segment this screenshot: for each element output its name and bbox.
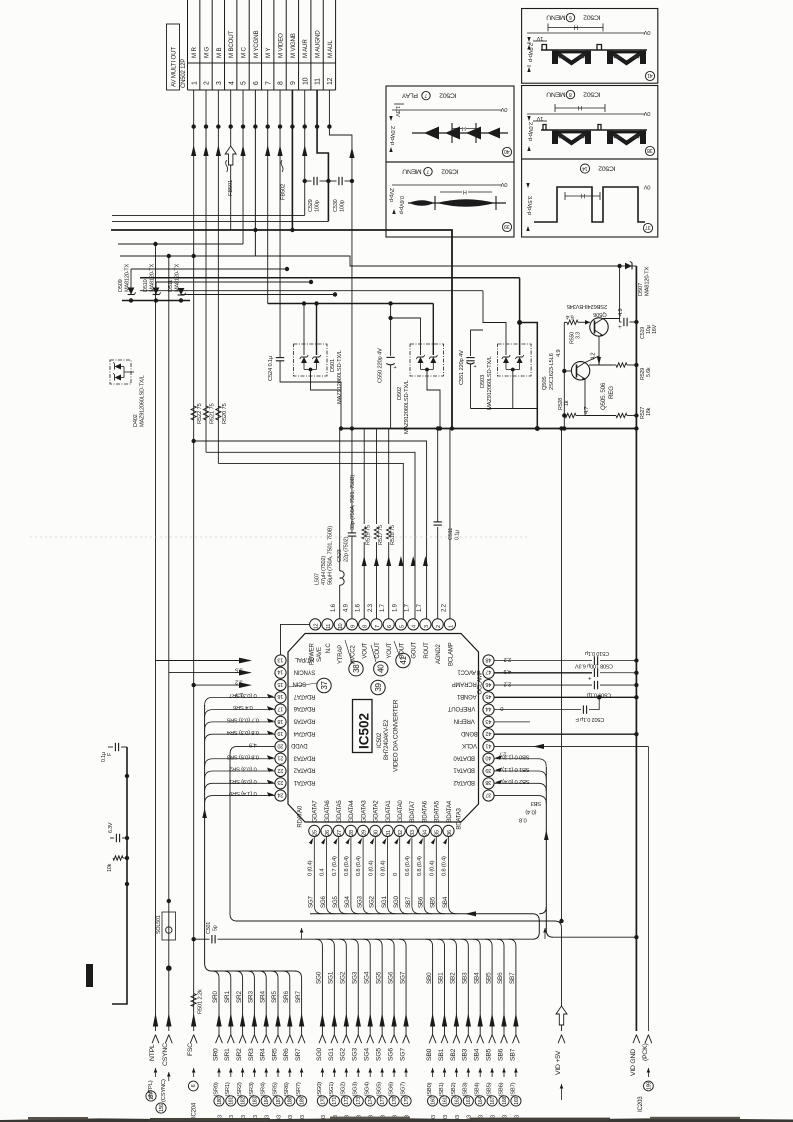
wire col3 M B xyxy=(217,90,219,463)
svg-text:C529: C529 xyxy=(308,199,314,212)
terminal SG6 xyxy=(391,1013,396,1027)
wire Q505 emitter down to R528 node xyxy=(584,379,586,416)
svg-text:GDATA7: GDATA7 xyxy=(313,800,319,823)
svg-text:(CSYNC): (CSYNC) xyxy=(161,1079,167,1102)
wire pin33 SB7 hook to bus C xyxy=(412,837,420,914)
svg-text:2Vp-p: 2Vp-p xyxy=(388,188,394,202)
terminal SG5 xyxy=(379,1013,384,1027)
wire Q506 base line with R550 xyxy=(564,321,567,323)
svg-text:M VIDEO: M VIDEO xyxy=(277,33,284,58)
svg-text:37: 37 xyxy=(320,681,329,690)
svg-text:YTRAP: YTRAP xyxy=(338,645,344,664)
circled ref 41 xyxy=(396,653,410,667)
svg-text:18: 18 xyxy=(278,718,284,724)
svg-text:33p (750A, 7501, 750B): 33p (750A, 7501, 750B) xyxy=(350,475,356,530)
wire pin47 AVCC1 + capacitor C508 100u 6.3V xyxy=(494,672,592,674)
svg-text:10k: 10k xyxy=(107,863,113,872)
SG group wires xyxy=(315,939,322,1034)
svg-text:0.7 (0.3) SR5: 0.7 (0.3) SR5 xyxy=(227,717,259,723)
pin 46 circle xyxy=(483,679,494,690)
pin 45 circle xyxy=(483,692,494,703)
svg-text:37: 37 xyxy=(645,224,651,230)
svg-text:MENU: MENU xyxy=(546,91,566,98)
svg-text:FB502: FB502 xyxy=(281,184,287,200)
svg-text:SR6: SR6 xyxy=(283,991,290,1003)
svg-text:SB3: SB3 xyxy=(462,1048,469,1061)
svg-text:4.9: 4.9 xyxy=(343,603,349,612)
svg-text:15: 15 xyxy=(278,681,284,687)
svg-text:0: 0 xyxy=(500,705,503,711)
pin 35 circle xyxy=(431,825,442,836)
pin 37 circle xyxy=(483,790,494,801)
wire col12 xyxy=(327,124,331,128)
pin 25 circle xyxy=(309,825,320,836)
svg-text:M B: M B xyxy=(216,48,223,58)
resistor R528 1k xyxy=(563,415,566,417)
svg-text:RDATA4: RDATA4 xyxy=(293,730,315,736)
svg-text:BH7240AKV-E2: BH7240AKV-E2 xyxy=(384,719,390,760)
svg-text:183: 183 xyxy=(252,1097,258,1105)
svg-text:(SR7): (SR7) xyxy=(296,1082,302,1096)
waveform box IC502 (7) PLAY xyxy=(386,86,514,162)
svg-text:18k: 18k xyxy=(646,407,652,416)
diode D511 MA8120-TX xyxy=(181,294,335,296)
svg-text:M G: M G xyxy=(203,47,210,58)
terminal SG1 xyxy=(332,1013,337,1027)
svg-text:SG0: SG0 xyxy=(316,1048,323,1061)
svg-text:BCLAMP: BCLAMP xyxy=(448,642,454,666)
svg-text:ROUT: ROUT xyxy=(424,642,430,659)
protection diode D402 MAZ912060LSD-TX/L xyxy=(110,360,131,384)
svg-text:(PCK): (PCK) xyxy=(642,1043,649,1061)
svg-text:AVCC1: AVCC1 xyxy=(457,668,476,674)
svg-text:SB4: SB4 xyxy=(442,896,449,908)
terminal SB6 xyxy=(501,1013,506,1027)
svg-text:SG6: SG6 xyxy=(387,971,394,984)
diode row line xyxy=(122,300,190,302)
stair wire to BOUT pin5 xyxy=(218,463,403,619)
wire pin32 SG0 hook to bus C xyxy=(400,837,408,914)
svg-text:VID +5V: VID +5V xyxy=(555,1050,562,1075)
svg-text:BDATA0: BDATA0 xyxy=(453,754,475,760)
wire pin35 SB5 hook to bus C xyxy=(436,837,444,914)
wire pin38 hook to SB bus xyxy=(494,783,546,791)
svg-text:C523: C523 xyxy=(337,549,343,562)
wire pin17 SR6 hook to SR bus xyxy=(205,710,275,718)
svg-text:L507: L507 xyxy=(315,573,321,585)
pin 17 circle xyxy=(275,704,286,715)
svg-text:1.3V: 1.3V xyxy=(394,106,400,117)
svg-text:199: 199 xyxy=(646,1082,652,1090)
svg-text:3.5Vp-p: 3.5Vp-p xyxy=(526,196,532,215)
svg-text:0.6Vp-p: 0.6Vp-p xyxy=(398,196,404,214)
svg-text:(SB0): (SB0) xyxy=(427,1082,433,1096)
svg-text:R519 75: R519 75 xyxy=(366,525,372,545)
svg-text:SG6: SG6 xyxy=(320,895,327,908)
svg-text:MENU: MENU xyxy=(546,14,566,21)
svg-text:YOUT: YOUT xyxy=(387,642,393,658)
op-amp IC502 BH7240AKV-E2 body xyxy=(288,634,479,823)
resistor R520 75 xyxy=(216,406,221,420)
pin 48 circle xyxy=(483,655,494,666)
svg-text:100p: 100p xyxy=(340,200,346,212)
wire col1 xyxy=(191,124,195,128)
svg-text:C551 220p 4V: C551 220p 4V xyxy=(459,350,465,385)
svg-text:2.0Vp-p: 2.0Vp-p xyxy=(389,126,395,145)
svg-text:11: 11 xyxy=(315,78,322,85)
SR group wires xyxy=(218,978,220,1035)
svg-text:SR0: SR0 xyxy=(212,991,219,1003)
wire pin28 SG4 hook to bus C xyxy=(351,837,359,914)
svg-text:SG1: SG1 xyxy=(328,1048,335,1061)
svg-text:C510 0.1μ: C510 0.1μ xyxy=(585,650,609,656)
svg-text:MAZ912060LSD-TX/L: MAZ912060LSD-TX/L xyxy=(140,375,146,427)
svg-text:SB6: SB6 xyxy=(417,896,424,908)
wire col5 xyxy=(241,124,245,128)
circled ref 37 xyxy=(317,678,331,692)
svg-text:12: 12 xyxy=(327,77,334,85)
svg-text:2.2: 2.2 xyxy=(441,603,447,612)
terminal SB2 xyxy=(454,1013,459,1027)
capacitor C550 220p 4V xyxy=(388,301,392,305)
wire pin18 SR5 hook to SR bus xyxy=(205,722,275,730)
pin 43 circle xyxy=(483,716,494,727)
svg-text:(SB4): (SB4) xyxy=(475,1082,481,1096)
pin 11 circle xyxy=(322,619,333,630)
pin 10 circle xyxy=(334,619,345,630)
svg-text:SR7: SR7 xyxy=(295,991,302,1003)
svg-text:5: 5 xyxy=(399,625,405,628)
waveform box IC502 (7) MENU xyxy=(386,162,514,237)
svg-text:AGND2: AGND2 xyxy=(436,643,442,664)
waveform trace (7) MENU lens shapes xyxy=(408,202,506,204)
svg-text:4.9: 4.9 xyxy=(504,668,511,674)
wire Q506 emitter to C519 xyxy=(603,318,620,320)
svg-text:NTPL: NTPL xyxy=(149,1044,156,1061)
pin 34 circle xyxy=(419,825,430,836)
svg-text:170: 170 xyxy=(320,1097,326,1105)
wire col12 M AUL jog / long vertical xyxy=(329,90,352,429)
svg-text:187: 187 xyxy=(276,1097,282,1105)
svg-text:5.6k: 5.6k xyxy=(646,367,652,377)
svg-text:160: 160 xyxy=(430,1097,436,1105)
svg-text:169: 169 xyxy=(514,1097,520,1105)
svg-text:4: 4 xyxy=(412,625,418,628)
svg-text:SB3: SB3 xyxy=(531,800,541,806)
svg-text:RDATA5: RDATA5 xyxy=(293,718,315,724)
svg-text:IC502: IC502 xyxy=(357,713,372,749)
svg-text:181: 181 xyxy=(229,1097,235,1105)
pin 8 circle xyxy=(359,619,370,630)
svg-text:0.8 (0.4): 0.8 (0.4) xyxy=(344,856,350,876)
svg-text:23: 23 xyxy=(278,779,284,785)
svg-text:38: 38 xyxy=(647,147,653,153)
svg-text:RDATA3: RDATA3 xyxy=(293,754,315,760)
svg-text:43: 43 xyxy=(486,718,492,724)
svg-text:(SG5): (SG5) xyxy=(377,1082,383,1097)
svg-text:(0.4): (0.4) xyxy=(525,809,536,815)
resistor R522 75 xyxy=(191,406,196,420)
wire col4 M BCOUT xyxy=(230,90,232,146)
svg-text:(SB7): (SB7) xyxy=(510,1082,516,1096)
svg-text:VOUT: VOUT xyxy=(363,642,369,658)
terminal SR5 xyxy=(275,1013,280,1027)
capacitor C523 on pin9 AVCC2 wire xyxy=(351,536,353,619)
svg-text:0 (0.3) SR7: 0 (0.3) SR7 xyxy=(229,692,256,698)
svg-text:BDATA4: BDATA4 xyxy=(447,800,453,822)
terminal SR7 xyxy=(299,1013,304,1027)
svg-text:178: 178 xyxy=(392,1097,398,1105)
svg-text:SG3: SG3 xyxy=(352,1048,359,1061)
bus line D y=244 xyxy=(118,243,243,245)
svg-text:2.0Vp-p: 2.0Vp-p xyxy=(527,43,533,62)
svg-text:44: 44 xyxy=(486,706,492,712)
svg-text:39: 39 xyxy=(486,767,492,773)
svg-text:(SR0): (SR0) xyxy=(213,1082,219,1096)
pin 7 circle xyxy=(371,619,382,630)
pin 39 circle xyxy=(483,765,494,776)
pin 14 circle xyxy=(275,667,286,678)
svg-text:184: 184 xyxy=(264,1097,270,1105)
svg-text:171: 171 xyxy=(332,1097,338,1105)
svg-text:VREFOUT: VREFOUT xyxy=(448,705,476,711)
svg-text:SR0: SR0 xyxy=(212,1048,219,1061)
wire col7 M Y xyxy=(267,90,269,304)
svg-text:VCLK: VCLK xyxy=(462,742,477,748)
svg-text:100p: 100p xyxy=(315,200,321,212)
svg-text:GDATA6: GDATA6 xyxy=(325,800,331,823)
svg-text:SR2: SR2 xyxy=(236,991,243,1003)
svg-text:SG7: SG7 xyxy=(308,895,315,908)
capacitor C501 5p xyxy=(211,935,213,943)
resistor R527 18k xyxy=(585,415,616,417)
svg-text:3.3: 3.3 xyxy=(576,332,582,339)
svg-text:1V: 1V xyxy=(536,35,543,41)
svg-text:SB1: SB1 xyxy=(438,972,445,984)
wire col1 M R / FSC vertical xyxy=(193,90,195,1031)
pin 28 circle xyxy=(345,825,356,836)
wire SCIN branch from col1 xyxy=(191,683,195,687)
svg-text:SR2: SR2 xyxy=(236,1048,243,1061)
terminal SG4 xyxy=(368,1013,373,1027)
svg-text:0 (1.4) SR0: 0 (1.4) SR0 xyxy=(229,790,256,796)
svg-text:(SG4): (SG4) xyxy=(365,1082,371,1097)
svg-text:22p (7502): 22p (7502) xyxy=(344,537,350,562)
wire pin43 VREFIN xyxy=(494,721,530,723)
svg-text:6.4: 6.4 xyxy=(565,314,573,320)
svg-text:0.8 (0.5) SR3: 0.8 (0.5) SR3 xyxy=(227,753,259,759)
pin 24 circle xyxy=(275,790,286,801)
svg-text:38: 38 xyxy=(486,779,492,785)
svg-text:D501: D501 xyxy=(330,359,336,372)
svg-text:4: 4 xyxy=(228,81,235,85)
svg-text:R518 75: R518 75 xyxy=(390,525,396,545)
svg-text:CSYNC: CSYNC xyxy=(162,1043,169,1066)
waveform trace (7) PLAY triangles xyxy=(412,132,508,134)
svg-text:(SG3): (SG3) xyxy=(353,1082,359,1097)
svg-text:RDATA6: RDATA6 xyxy=(293,705,315,711)
terminal SB0 xyxy=(430,1013,435,1027)
svg-text:0V: 0V xyxy=(500,181,507,187)
pin 41 circle xyxy=(483,741,494,752)
SB group wires xyxy=(426,939,433,1034)
svg-text:M YCGNB: M YCGNB xyxy=(253,31,260,58)
svg-text:1V: 1V xyxy=(536,115,543,121)
wire regulator output down xyxy=(561,429,563,922)
wire col8 xyxy=(278,124,282,128)
pin 40 circle xyxy=(483,753,494,764)
svg-text:13: 13 xyxy=(278,656,284,662)
supply line y=428.5 thick xyxy=(341,428,636,430)
svg-text:SB2: SB2 xyxy=(450,1048,457,1061)
svg-text:FSC: FSC xyxy=(187,1043,194,1056)
svg-text:SB4: SB4 xyxy=(473,972,480,984)
pin 27 circle xyxy=(333,825,344,836)
pin 6 circle xyxy=(383,619,394,630)
svg-text:(SR4): (SR4) xyxy=(261,1082,267,1096)
transistor Q506 2SB624II-BV345 xyxy=(590,318,608,336)
wire pin36 SB4 hook to bus C xyxy=(449,837,457,914)
svg-text:167: 167 xyxy=(490,1097,496,1105)
capacitor C511 on pin2 AGND2 wire xyxy=(437,527,439,619)
svg-text:SB7: SB7 xyxy=(509,972,516,984)
svg-text:SB5: SB5 xyxy=(486,1048,493,1061)
svg-text:0 (0.4): 0 (0.4) xyxy=(429,860,435,876)
svg-text:M AUGND: M AUGND xyxy=(314,30,321,58)
pin 16 circle xyxy=(275,692,286,703)
svg-text:+: + xyxy=(474,364,477,370)
svg-text:MAZ912060LSD-TX/L: MAZ912060LSD-TX/L xyxy=(487,355,493,410)
svg-text:SG1: SG1 xyxy=(381,895,388,908)
wire col4 xyxy=(228,124,232,128)
pin 9 circle xyxy=(346,619,357,630)
svg-text:32: 32 xyxy=(398,830,404,836)
svg-text:VREFIN: VREFIN xyxy=(454,718,475,724)
svg-text:26: 26 xyxy=(325,830,331,836)
svg-text:SG2: SG2 xyxy=(369,895,376,908)
svg-text:16V: 16V xyxy=(652,324,658,334)
wire col7 to D501 feed xyxy=(268,303,434,305)
diode D509 MA8120-TX xyxy=(131,268,287,270)
svg-text:36: 36 xyxy=(447,830,453,836)
protection diode D503 MAZ912060LSD-TX/L xyxy=(519,278,521,355)
svg-text:SG3: SG3 xyxy=(351,971,358,984)
left supply rail xyxy=(112,747,127,1004)
svg-text:FB501: FB501 xyxy=(228,180,234,196)
svg-text:AGNB1: AGNB1 xyxy=(456,693,476,699)
svg-text:48: 48 xyxy=(486,656,492,662)
circled ref 38 xyxy=(349,662,363,676)
waveform trace (6) MENU xyxy=(541,49,647,51)
svg-text:M BCOUT: M BCOUT xyxy=(228,30,235,58)
wire pin24 SR0 hook to SR bus xyxy=(205,796,275,804)
capacitor C529 100p xyxy=(305,180,312,182)
svg-text:PLAY: PLAY xyxy=(401,92,418,99)
svg-text:1.7: 1.7 xyxy=(417,603,423,612)
svg-text:Q505. 506: Q505. 506 xyxy=(600,382,607,410)
wire pin4 GOUT xyxy=(411,556,416,566)
terminal FSC with R501 xyxy=(191,994,196,1007)
svg-text:D507: D507 xyxy=(638,283,644,296)
wire pin44 VREFOUT + capacitor C502 0.1u F xyxy=(494,709,581,711)
svg-text:0V: 0V xyxy=(643,29,650,35)
terminal SB3 xyxy=(466,1013,471,1027)
svg-text:27: 27 xyxy=(337,830,343,836)
svg-text:SB6: SB6 xyxy=(497,1048,504,1061)
svg-text:GDATA2: GDATA2 xyxy=(374,800,380,823)
svg-text:C530: C530 xyxy=(333,199,339,212)
svg-text:29: 29 xyxy=(361,830,367,836)
svg-text:164: 164 xyxy=(478,1097,484,1105)
svg-text:0.8 (0.4): 0.8 (0.4) xyxy=(356,856,362,876)
svg-text:GDATA5: GDATA5 xyxy=(337,800,343,823)
svg-text:30: 30 xyxy=(374,830,380,836)
waveform trace (8) MENU xyxy=(541,129,647,131)
svg-text:21: 21 xyxy=(278,755,284,761)
SR bus fan to bottom columns xyxy=(205,963,296,971)
diode D510 MA8120-TX xyxy=(156,281,311,283)
pin 26 circle xyxy=(321,825,332,836)
svg-text:161: 161 xyxy=(442,1097,448,1105)
svg-text:(SG6): (SG6) xyxy=(389,1082,395,1097)
svg-text:H: H xyxy=(463,189,467,195)
waveform box IC502 (8) MENU xyxy=(522,86,658,160)
svg-text:16: 16 xyxy=(278,693,284,699)
capacitor left 0.1u xyxy=(121,746,127,748)
svg-text:1.6: 1.6 xyxy=(356,603,362,612)
svg-text:0.1μ: 0.1μ xyxy=(455,530,461,540)
svg-text:157: 157 xyxy=(149,1092,155,1100)
svg-text:20: 20 xyxy=(278,742,284,748)
svg-text:2: 2 xyxy=(436,625,442,628)
wire pin20 DVDD to supply bus xyxy=(230,746,562,1031)
svg-text:SB2 0 (0.4): SB2 0 (0.4) xyxy=(502,778,529,784)
connector CN502 AV MULTI OUT table xyxy=(187,0,189,90)
svg-text:41: 41 xyxy=(399,656,408,665)
wire pin46 RCRAMP + capacitor C509 0.1u xyxy=(494,684,592,686)
svg-text:BDATA1: BDATA1 xyxy=(453,767,475,773)
wire Q506 collector down 4.2 xyxy=(598,336,600,365)
terminal SR6 xyxy=(287,1013,292,1027)
svg-text:IC204: IC204 xyxy=(192,1102,198,1118)
wire col9 M VIGNB xyxy=(291,90,293,230)
svg-text:BDATA7: BDATA7 xyxy=(410,800,416,822)
arrow col1 xyxy=(191,145,196,156)
svg-text:188: 188 xyxy=(288,1097,294,1105)
pin 47 circle xyxy=(483,667,494,678)
svg-text:RCRAMP: RCRAMP xyxy=(452,681,477,687)
bus line G y=290.7 xyxy=(140,290,483,292)
svg-text:0.8 (0.4): 0.8 (0.4) xyxy=(442,856,448,876)
svg-text:R521 75: R521 75 xyxy=(210,403,216,424)
pin 31 circle xyxy=(382,825,393,836)
wire col6 M YCGNB xyxy=(254,90,256,256)
svg-text:168: 168 xyxy=(502,1097,508,1105)
wire pin48 OCLAMP + capacitor C510 0.1u xyxy=(494,660,592,662)
transistor Q505 2SC1623-L5L6 xyxy=(571,362,589,380)
svg-text:SB3: SB3 xyxy=(462,972,469,984)
svg-text:11: 11 xyxy=(326,624,332,629)
svg-text:R517 75: R517 75 xyxy=(378,525,384,545)
svg-text:5: 5 xyxy=(241,81,248,85)
svg-text:3.2: 3.2 xyxy=(235,679,242,685)
terminal CSYNC xyxy=(166,1013,171,1027)
wire col8 M VIDEO / FB502 xyxy=(279,90,281,356)
waveform box IC502 (14) xyxy=(522,159,658,237)
pin 13 circle xyxy=(275,655,286,666)
wire pin30 SG2 hook to bus C xyxy=(375,837,383,914)
bus line E y=256/266 to D507 xyxy=(120,256,620,266)
